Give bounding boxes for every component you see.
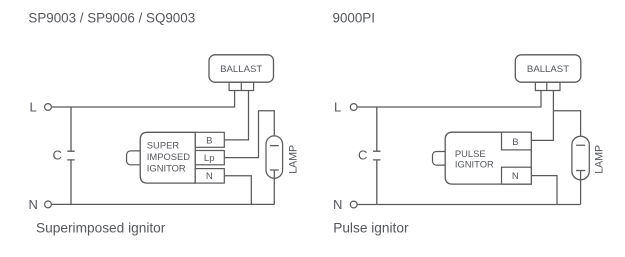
ballast U3 (right) xyxy=(515,55,581,82)
ignitor U4 body PULSE IGNITOR (right) xyxy=(445,132,531,184)
svg-text:IGNITOR: IGNITOR xyxy=(147,162,186,173)
wire N line (right) xyxy=(357,204,580,206)
wire L line to ballast input (left) xyxy=(52,91,235,108)
svg-text:BALLAST: BALLAST xyxy=(527,64,569,75)
wire L line to ballast input (right) xyxy=(357,91,541,108)
svg-text:LAMP: LAMP xyxy=(288,145,300,174)
capacitor C (left) xyxy=(53,107,75,204)
wire ballast output to ignitor B (left) xyxy=(224,91,248,140)
node L (left) xyxy=(30,100,52,115)
svg-text:SUPER: SUPER xyxy=(147,140,180,151)
svg-text:N: N xyxy=(29,197,38,212)
svg-text:SP9003 / SP9006 / SQ9003: SP9003 / SP9006 / SQ9003 xyxy=(28,10,195,25)
node L (right) xyxy=(334,100,357,115)
svg-text:LAMP: LAMP xyxy=(594,145,606,174)
wire N stub to N line (left) xyxy=(224,176,251,205)
ignitor terminal B (left) xyxy=(195,132,224,147)
svg-text:Pulse ignitor: Pulse ignitor xyxy=(333,221,409,236)
svg-text:IMPOSED: IMPOSED xyxy=(147,151,190,162)
ignitor U2 body SUPER IMPOSED IGNITOR (left) xyxy=(140,132,195,183)
ignitor terminal B (right) xyxy=(502,132,532,150)
node N (right) xyxy=(333,197,357,212)
svg-text:9000PI: 9000PI xyxy=(333,10,375,25)
svg-text:N: N xyxy=(333,197,342,212)
wire N stub to N line (right) xyxy=(531,176,557,205)
svg-text:B: B xyxy=(512,137,518,148)
svg-text:PULSE: PULSE xyxy=(455,148,486,159)
wire ballast output to ignitor B and lamp (right) xyxy=(531,91,580,146)
ballast U1 (left) xyxy=(209,55,274,82)
wire N line (left) xyxy=(52,203,275,205)
wire Lp to lamp top (left) xyxy=(224,111,274,158)
svg-text:Lp: Lp xyxy=(204,153,215,164)
ignitor terminal Lp (left) xyxy=(195,151,224,165)
capacitor C (right) xyxy=(358,107,381,205)
node N (left) xyxy=(29,197,52,212)
lamp LP2 (right) xyxy=(572,136,606,204)
svg-text:N: N xyxy=(512,171,519,182)
svg-text:BALLAST: BALLAST xyxy=(220,64,262,75)
svg-text:Superimposed ignitor: Superimposed ignitor xyxy=(36,221,166,236)
svg-text:L: L xyxy=(334,100,341,115)
svg-text:B: B xyxy=(206,135,212,146)
svg-text:C: C xyxy=(358,147,367,162)
ignitor U4 tab (right) xyxy=(433,152,451,166)
lamp LP1 (left) xyxy=(266,136,300,205)
svg-text:IGNITOR: IGNITOR xyxy=(455,159,494,170)
svg-text:N: N xyxy=(206,171,213,182)
ignitor terminal N (left) xyxy=(195,169,224,184)
ignitor U2 tab (left) xyxy=(127,151,145,165)
ballast terminal pins (left) xyxy=(229,82,254,90)
ignitor terminal N (right) xyxy=(502,167,532,184)
ballast terminal pins (right) xyxy=(535,82,560,90)
svg-text:L: L xyxy=(30,100,37,115)
svg-text:C: C xyxy=(53,147,62,162)
